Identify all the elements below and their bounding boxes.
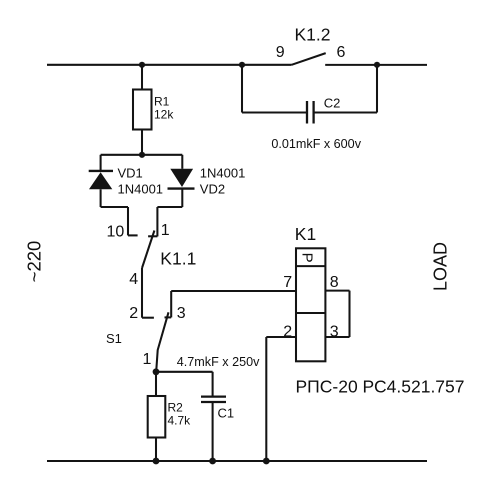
svg-text:VD1: VD1	[118, 165, 143, 180]
svg-text:K1.2: K1.2	[295, 24, 331, 44]
svg-text:~220: ~220	[24, 241, 45, 283]
wire contact-1 drop	[156, 207, 158, 236]
svg-text:R2: R2	[168, 401, 184, 415]
svg-text:1: 1	[161, 222, 170, 239]
svg-text:R1: R1	[154, 95, 170, 109]
wire diode loop top rail	[101, 154, 183, 156]
diode VD1	[89, 171, 113, 189]
wire R1 bottom lead	[141, 130, 143, 155]
wire top rail right segment	[325, 64, 427, 66]
switch S1 blade	[156, 312, 168, 371]
resistor R1	[133, 90, 152, 130]
svg-text:Р: Р	[299, 253, 316, 263]
pin 8 wire	[325, 290, 349, 292]
wire relay pin 2 drop	[265, 337, 267, 461]
node junction 1	[153, 368, 160, 375]
switch K1.1 blade	[142, 231, 154, 269]
wire C1 bottom lead	[212, 403, 214, 461]
node junction on top rail (R1)	[139, 62, 145, 68]
node junction bottom (C1)	[209, 458, 216, 465]
wire contact-10 drop	[127, 207, 129, 235]
wire VD1 bottom lead	[100, 189, 102, 207]
node junction bottom (R2)	[153, 458, 160, 465]
svg-text:S1: S1	[106, 331, 122, 346]
wire C2 right horizontal	[314, 111, 377, 113]
svg-text:9: 9	[276, 44, 285, 61]
contact 2 stub	[142, 317, 154, 319]
svg-text:РПС-20 РС4.521.757: РПС-20 РС4.521.757	[296, 376, 465, 396]
svg-text:K1.1: K1.1	[160, 248, 196, 268]
wire C2 right riser	[376, 65, 378, 113]
contact 10 stub	[128, 234, 138, 236]
wire top rail left segment	[47, 64, 292, 66]
svg-text:0.01mkF x 600v: 0.01mkF x 600v	[271, 137, 361, 151]
node junction on top rail (C2 right)	[374, 62, 380, 68]
wire R2 top lead	[155, 372, 157, 396]
wire contact 4	[141, 268, 143, 318]
svg-text:2: 2	[283, 323, 292, 340]
wire R2 bottom lead	[155, 438, 157, 462]
svg-text:1: 1	[143, 351, 152, 368]
wire contact 3 to relay pin 7	[171, 290, 296, 292]
diode VD2	[168, 169, 195, 189]
svg-text:K1: K1	[295, 224, 316, 244]
svg-text:C2: C2	[324, 95, 341, 110]
wire C2 left drop	[241, 65, 243, 113]
svg-text:8: 8	[330, 274, 339, 291]
wire diode loop bottom-right rail	[157, 206, 182, 208]
relay contact K1.2 blade	[292, 53, 326, 65]
contact 3 lead	[170, 291, 172, 317]
svg-text:6: 6	[337, 44, 346, 61]
wire C2 left horizontal	[242, 111, 307, 113]
wire bracket pins 8-3	[348, 291, 350, 337]
pin 3 wire	[325, 336, 349, 338]
wire bottom rail	[47, 460, 427, 462]
wire C1 branch horizontal	[156, 371, 213, 373]
svg-text:4.7mkF x 250v: 4.7mkF x 250v	[177, 355, 260, 369]
pin 2 wire	[266, 336, 296, 338]
svg-text:3: 3	[177, 305, 186, 322]
svg-text:C1: C1	[218, 405, 235, 420]
svg-text:4: 4	[129, 271, 138, 288]
svg-text:VD2: VD2	[200, 182, 225, 197]
relay K1 coil box	[296, 248, 325, 361]
svg-text:1N4001: 1N4001	[200, 165, 246, 180]
capacitor C2	[307, 101, 314, 124]
wire VD2 top lead	[181, 155, 183, 169]
svg-text:3: 3	[330, 323, 339, 340]
svg-text:LOAD: LOAD	[431, 242, 451, 291]
node junction bottom (relay pin 2)	[263, 458, 270, 465]
contact 1 foot	[148, 235, 157, 237]
wire VD1 top lead	[100, 155, 102, 171]
wire C1 top lead	[212, 372, 214, 396]
node junction R1 / diode loop	[139, 152, 145, 158]
node junction on top rail (C2 left)	[239, 62, 245, 68]
svg-text:2: 2	[129, 305, 138, 322]
wire VD2 bottom lead	[181, 189, 183, 207]
wire diode loop bottom-left rail	[101, 206, 128, 208]
svg-text:4.7k: 4.7k	[168, 414, 192, 428]
resistor R2	[148, 396, 166, 438]
svg-text:1N4001: 1N4001	[118, 182, 164, 197]
wire R1 top lead	[141, 65, 143, 90]
contact 3 foot	[165, 316, 172, 318]
capacitor C1	[201, 397, 226, 402]
svg-text:10: 10	[107, 223, 125, 240]
svg-text:7: 7	[283, 274, 292, 291]
svg-text:12k: 12k	[154, 108, 174, 122]
